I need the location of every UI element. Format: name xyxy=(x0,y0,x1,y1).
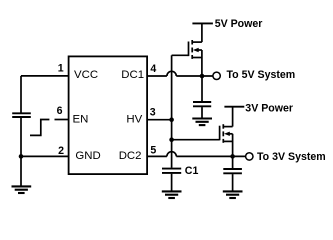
ground (under 3V cap) xyxy=(223,190,243,192)
wire pin3 HV stub xyxy=(147,119,171,121)
ground (under 5V cap) xyxy=(192,117,212,119)
capacitor on To-3V node xyxy=(232,156,234,168)
capacitor on To-5V node xyxy=(201,76,203,101)
gate lead from HV rail xyxy=(172,139,220,141)
terminal To 5V System xyxy=(213,72,220,79)
ground (under C1) xyxy=(162,190,182,192)
gate bar xyxy=(188,42,190,57)
wire left rail upper (VCC to cap) xyxy=(20,76,22,113)
svg-text:To 3V System: To 3V System xyxy=(257,151,326,163)
gate lead from HV rail xyxy=(172,54,189,56)
channel segments xyxy=(191,40,193,45)
node DC2 junction xyxy=(230,154,235,159)
capacitor C-left plates xyxy=(12,112,31,114)
power bar 5V xyxy=(192,22,213,24)
wire HV vertical rail xyxy=(171,55,173,168)
node HV to 3V gate junction xyxy=(169,137,174,142)
svg-text:GND: GND xyxy=(75,150,100,162)
svg-text:2: 2 xyxy=(58,145,64,157)
node DC1 junction xyxy=(200,74,205,79)
body stub with arrow xyxy=(228,133,233,135)
svg-text:5: 5 xyxy=(150,145,156,157)
node HV junction xyxy=(169,117,174,122)
svg-text:VCC: VCC xyxy=(74,69,98,81)
gate bar xyxy=(219,126,221,141)
drain stub + lead to power bar xyxy=(192,41,202,43)
drain stub + lead to power bar xyxy=(223,126,232,128)
svg-text:4: 4 xyxy=(150,63,156,75)
svg-text:5V Power: 5V Power xyxy=(215,18,263,30)
wire pin6 EN stub xyxy=(55,119,69,121)
node left rail / GND junction xyxy=(19,154,24,159)
wire left rail to ground xyxy=(20,156,22,186)
svg-text:EN: EN xyxy=(73,114,89,126)
IC U1 power-mux body rectangle xyxy=(69,56,148,174)
channel segments xyxy=(222,124,224,129)
body stub with arrow xyxy=(197,49,202,51)
transistor Q1 (5V PMOS switch) xyxy=(172,23,202,76)
svg-text:DC2: DC2 xyxy=(119,150,142,162)
ground (left) xyxy=(12,185,32,187)
wire pin5 DC2 with hop over HV line xyxy=(147,155,167,157)
svg-text:DC1: DC1 xyxy=(121,69,144,81)
svg-text:To 5V System: To 5V System xyxy=(227,69,296,81)
capacitor C1 on HV rail xyxy=(162,168,181,170)
svg-text:HV: HV xyxy=(126,114,142,126)
wire left rail lower (cap to GND node) xyxy=(20,118,22,157)
svg-text:3: 3 xyxy=(150,107,156,119)
power bar 3V xyxy=(224,106,244,108)
svg-text:6: 6 xyxy=(57,105,63,117)
svg-text:1: 1 xyxy=(58,63,64,75)
EN step waveform symbol xyxy=(30,120,49,136)
source stub + lead down to DC2 node xyxy=(223,140,232,142)
wire pin2 GND to left rail xyxy=(21,155,68,157)
wire pin1 VCC to left rail xyxy=(21,75,68,77)
wire pin4 DC1 with hop over HV line xyxy=(147,75,167,77)
svg-text:C1: C1 xyxy=(185,165,199,177)
transistor Q2 (3V PMOS switch) xyxy=(172,107,233,157)
terminal To 3V System xyxy=(246,153,253,160)
svg-text:3V Power: 3V Power xyxy=(245,102,293,114)
source stub + lead down to DC1 node xyxy=(192,57,202,59)
